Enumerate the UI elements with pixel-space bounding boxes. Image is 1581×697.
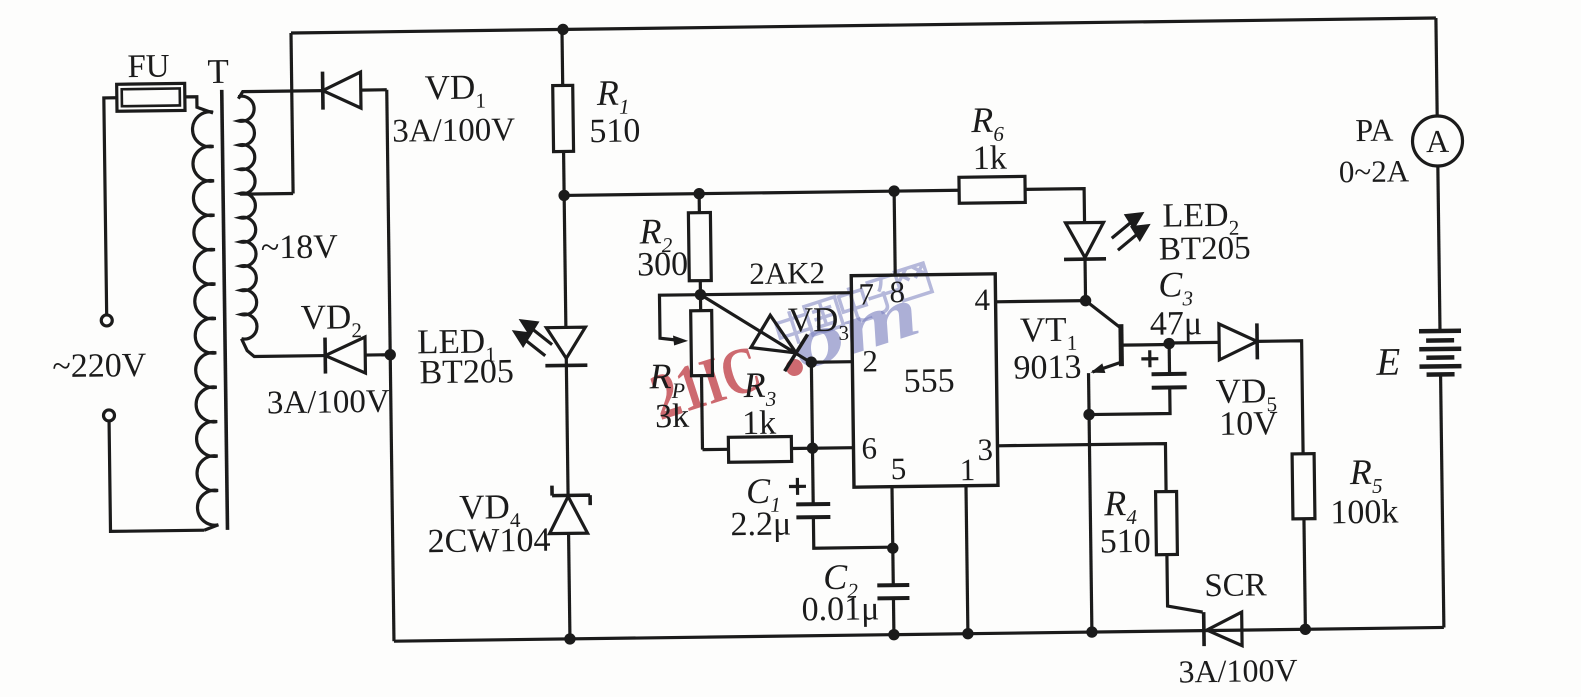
wire pin4 bbox=[996, 301, 1086, 302]
svg-text:5: 5 bbox=[891, 451, 907, 486]
node top rail R1 bbox=[557, 24, 569, 36]
node rail emitter bbox=[1086, 626, 1098, 638]
wire emitter column bbox=[1089, 373, 1092, 632]
svg-text:SCR: SCR bbox=[1204, 567, 1267, 604]
node rail C2 bbox=[888, 629, 900, 641]
wire pin3 to R4 bbox=[997, 444, 1166, 494]
svg-text:3A/100V: 3A/100V bbox=[267, 384, 390, 422]
arrows LED2 bbox=[1112, 221, 1133, 238]
wire R6 to LED2 bbox=[1025, 189, 1084, 224]
svg-text:1k: 1k bbox=[742, 405, 776, 442]
wire bottom rail bbox=[394, 627, 1444, 641]
wire right column top bbox=[1436, 18, 1437, 116]
node bus R2 bbox=[693, 188, 705, 200]
watermark chinese blue bbox=[773, 263, 933, 349]
svg-text:4: 4 bbox=[974, 282, 990, 317]
resistor R3 bbox=[728, 436, 791, 462]
wire fuse left lead bbox=[104, 98, 120, 315]
transistor VT1 emitter bbox=[1092, 362, 1121, 372]
svg-text:7: 7 bbox=[858, 276, 874, 311]
transistor VT1 collector bbox=[1086, 300, 1121, 328]
svg-text:300: 300 bbox=[637, 246, 688, 284]
arrows LED1 bbox=[531, 328, 552, 345]
svg-text:9013: 9013 bbox=[1013, 349, 1081, 387]
diode VD2 bbox=[323, 338, 327, 374]
wire center-tap riser bbox=[291, 33, 293, 193]
svg-text:510: 510 bbox=[1099, 523, 1150, 561]
svg-text:3: 3 bbox=[977, 432, 993, 467]
resistor R6 bbox=[959, 176, 1025, 203]
svg-text:0.01μ: 0.01μ bbox=[801, 590, 879, 628]
capacitor C2 bbox=[877, 583, 909, 587]
svg-text:3A/100V: 3A/100V bbox=[392, 112, 515, 150]
wire pin8 riser bbox=[894, 191, 895, 275]
plus sign C1 bbox=[789, 478, 806, 495]
svg-text:T: T bbox=[207, 52, 229, 91]
svg-text:8: 8 bbox=[889, 274, 905, 309]
potentiometer RP bbox=[699, 295, 702, 311]
wire top rail bbox=[291, 18, 1436, 33]
wire VD1-VD2 column bbox=[387, 90, 394, 641]
diode VD5 bbox=[1219, 323, 1257, 359]
transistor VT1 base bar bbox=[1118, 324, 1124, 366]
thyristor SCR bbox=[1202, 612, 1206, 646]
transformer core bbox=[222, 90, 228, 530]
node C1 pin5 bbox=[887, 542, 899, 554]
svg-text:BT205: BT205 bbox=[419, 353, 514, 391]
node emitter C3 bbox=[1083, 409, 1095, 421]
capacitor C1 bbox=[811, 448, 815, 504]
terminal circle upper bbox=[101, 315, 112, 326]
node rail LED column bbox=[564, 633, 576, 645]
wire VT1 base lead bbox=[1121, 343, 1169, 347]
svg-text:~220V: ~220V bbox=[52, 347, 147, 385]
wire primary bottom connector bbox=[204, 525, 218, 530]
node VD3 pin2 bbox=[806, 356, 818, 368]
LED LED2 bbox=[1066, 222, 1104, 257]
watermark red dot bbox=[786, 359, 803, 376]
resistor R4 bbox=[1156, 491, 1178, 554]
node rail pin1 bbox=[962, 628, 974, 640]
node rail R5 bbox=[1300, 623, 1312, 635]
potentiometer RP bracket bbox=[659, 295, 701, 341]
svg-text:FU: FU bbox=[127, 49, 170, 86]
transformer T primary winding bbox=[192, 112, 218, 526]
node VD2 bbox=[384, 349, 396, 361]
svg-text:2: 2 bbox=[862, 343, 878, 378]
wire VD1 anode bbox=[361, 88, 387, 92]
transformer T secondary winding bbox=[238, 96, 257, 339]
fuse FU bbox=[117, 83, 185, 111]
svg-text:1: 1 bbox=[960, 452, 976, 487]
node R2 RP VD3 bbox=[695, 289, 707, 301]
node pin4 LED2 bbox=[1080, 295, 1092, 307]
battery E bbox=[1419, 328, 1461, 333]
resistor R5 bbox=[1292, 454, 1315, 519]
wire pin7 bbox=[700, 293, 851, 295]
diode VD1 bbox=[321, 72, 325, 110]
svg-text:555: 555 bbox=[903, 362, 954, 400]
wire LED1 to VD4 bbox=[566, 365, 568, 495]
wire mains lower lead bbox=[109, 420, 204, 532]
diode VD3 bbox=[700, 293, 810, 363]
plus sign C3 bbox=[1141, 350, 1158, 367]
svg-text:2AK2: 2AK2 bbox=[749, 255, 825, 291]
svg-text:10V: 10V bbox=[1219, 405, 1278, 443]
ammeter PA bbox=[1412, 116, 1463, 167]
wire VD5 to R5 bbox=[1257, 341, 1303, 455]
wire secondary bottom lead bbox=[241, 338, 325, 357]
arrow VT1 emitter bbox=[1090, 363, 1105, 373]
node base C3 VD5 bbox=[1163, 338, 1175, 350]
svg-text:0~2A: 0~2A bbox=[1339, 153, 1410, 189]
wire PA to battery bbox=[1438, 166, 1440, 331]
wire pin5 column bbox=[892, 487, 893, 585]
svg-text:2CW104: 2CW104 bbox=[427, 522, 550, 561]
wire R3 to pin6 bbox=[791, 446, 853, 450]
wire pin2 bbox=[811, 360, 852, 364]
node R3 pin6 bbox=[807, 442, 819, 454]
svg-text:~18V: ~18V bbox=[261, 228, 339, 266]
wire RP to R3 bbox=[702, 448, 728, 452]
wire VD4 to rail bbox=[569, 533, 570, 638]
wire center tap bbox=[240, 192, 293, 196]
wire fuse right lead bbox=[185, 97, 213, 114]
terminal circle lower bbox=[103, 410, 114, 421]
svg-text:3A/100V: 3A/100V bbox=[1178, 652, 1298, 690]
wire R5 to rail bbox=[1304, 519, 1305, 629]
wire pin1 column bbox=[966, 486, 968, 634]
wire mid bus bbox=[564, 190, 959, 195]
svg-text:6: 6 bbox=[861, 430, 877, 465]
zener VD4 bbox=[552, 485, 590, 505]
svg-text:E: E bbox=[1375, 341, 1401, 384]
watermark 21IC red bbox=[642, 331, 769, 434]
wire to VD5 bbox=[1169, 341, 1219, 345]
svg-text:A: A bbox=[1426, 123, 1450, 159]
LED LED1 bbox=[564, 195, 566, 327]
wire battery to bottom rail bbox=[1441, 374, 1444, 627]
svg-text:47μ: 47μ bbox=[1150, 305, 1203, 343]
wire R4 to SCR gate bbox=[1167, 554, 1203, 612]
wire secondary top lead bbox=[238, 91, 323, 99]
svg-text:100k: 100k bbox=[1330, 494, 1398, 532]
watermark com blue script bbox=[782, 270, 928, 385]
resistor R2 bbox=[698, 194, 701, 213]
node bus R1 bbox=[558, 190, 570, 202]
svg-text:3k: 3k bbox=[655, 398, 689, 435]
node bus pin8 bbox=[888, 185, 900, 197]
svg-text:PA: PA bbox=[1355, 112, 1393, 148]
IC 555 bbox=[851, 274, 998, 487]
svg-text:2.2μ: 2.2μ bbox=[730, 505, 791, 543]
wire VD2 to node bbox=[365, 353, 390, 357]
arrow potentiometer wiper bbox=[673, 335, 688, 345]
svg-text:1k: 1k bbox=[972, 140, 1006, 177]
svg-text:BT205: BT205 bbox=[1159, 230, 1251, 267]
resistor R1 bbox=[560, 29, 564, 85]
svg-text:510: 510 bbox=[589, 112, 640, 150]
capacitor C3 bbox=[1168, 344, 1172, 374]
wire VD3 to R3 node bbox=[811, 362, 812, 448]
